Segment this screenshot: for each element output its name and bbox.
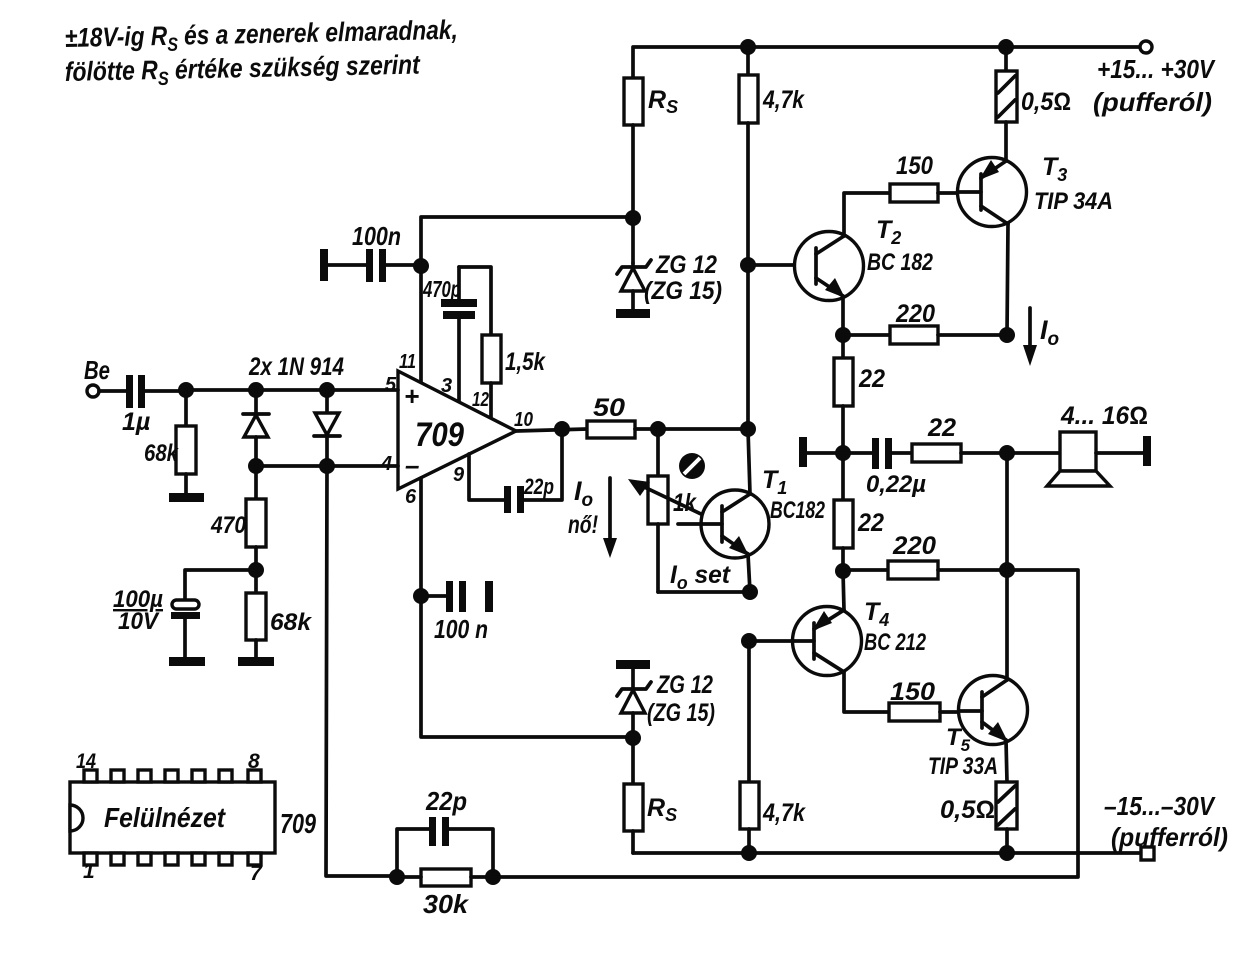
note text line 1 <box>64 15 458 58</box>
capacitor C2 100n (upper) <box>320 249 421 282</box>
resistor 1,5k <box>482 335 501 383</box>
speaker 4...16 ohm <box>1047 432 1143 486</box>
DIP pin 7 <box>248 853 261 865</box>
svg-text:(ZG 15): (ZG 15) <box>644 277 722 305</box>
node: rail / 4.7k column <box>740 39 756 55</box>
svg-text:(pufferól): (pufferól) <box>1093 87 1212 117</box>
wire T5 collector up <box>1005 570 1009 680</box>
svg-text:220: 220 <box>892 532 936 560</box>
resistor 150 (lower) <box>889 703 959 721</box>
terminal: input Be <box>87 385 99 397</box>
wire Rs bottom to zener node <box>631 125 635 263</box>
wire pin 5 <box>327 388 398 392</box>
svg-text:11: 11 <box>399 351 416 373</box>
svg-text:0,5Ω: 0,5Ω <box>1021 88 1071 116</box>
node: 100n lower / pin6 wire <box>413 588 429 604</box>
negative supply rail wire <box>633 851 1141 855</box>
node: output / speaker <box>999 445 1015 461</box>
node: rail / 0.5ohm bottom <box>999 845 1015 861</box>
svg-text:7: 7 <box>250 862 263 885</box>
terminal: +supply <box>1140 41 1152 53</box>
wire T2 collector to 150 <box>844 193 890 236</box>
svg-text:–15...–30V: –15...–30V <box>1104 791 1216 821</box>
svg-text:100n: 100n <box>352 221 401 251</box>
svg-text:6: 6 <box>405 486 417 508</box>
svg-text:BC 212: BC 212 <box>864 629 926 656</box>
svg-text:–: – <box>405 450 419 480</box>
resistor 4,7k (top) <box>739 47 758 429</box>
DIP pin 10 <box>192 770 205 782</box>
ground bar below zener D3 <box>616 309 650 318</box>
screw adjust symbol <box>679 453 705 479</box>
svg-text:10V: 10V <box>118 608 160 635</box>
resistor 30k <box>397 869 493 886</box>
potentiometer 1k <box>628 429 722 592</box>
node: diode D1 top <box>248 382 264 398</box>
svg-text:22: 22 <box>927 414 956 442</box>
capacitor C3 470p <box>441 267 477 402</box>
arrow Io (down) <box>1023 308 1037 366</box>
wire T4 base <box>749 639 793 643</box>
transistor T1 BC182 <box>678 490 769 558</box>
svg-text:68k: 68k <box>270 609 313 636</box>
ground bar below 100u <box>169 657 205 666</box>
node: 220 lower / output column / feedback <box>999 562 1015 578</box>
svg-text:4,7k: 4,7k <box>762 799 806 827</box>
resistor 0,5 ohm (top, hatched) <box>996 47 1017 161</box>
resistor Rs (bottom) <box>624 738 643 853</box>
node: output / 22p <box>554 421 570 437</box>
wire pin 4 <box>256 464 398 468</box>
capacitor C1 1u input <box>99 375 186 408</box>
svg-text:14: 14 <box>76 750 96 773</box>
DIP pin 14 <box>84 770 97 782</box>
svg-text:1k: 1k <box>673 489 697 517</box>
node: T1 emitter / Io set <box>742 584 758 600</box>
wire T4 emitter up <box>843 571 844 610</box>
wire Io-set loop bottom <box>658 590 750 594</box>
capacitor 22p (op-amp comp, pin 9) <box>469 429 562 513</box>
wire 470p top to 1.5k top <box>459 267 491 335</box>
svg-text:1µ: 1µ <box>122 408 150 436</box>
svg-text:709: 709 <box>280 808 316 839</box>
svg-text:+15... +30V: +15... +30V <box>1097 54 1216 84</box>
svg-text:Felülnézet: Felülnézet <box>104 802 226 833</box>
svg-text:ZG 12: ZG 12 <box>655 251 717 279</box>
positive supply rail wire <box>633 47 1146 78</box>
op-amp U1 709 triangle <box>398 371 516 489</box>
svg-text:0,5Ω: 0,5Ω <box>940 796 995 824</box>
transistor T4 BC212 <box>793 607 862 676</box>
wire node to 100u <box>185 570 256 600</box>
wire T1 emitter down <box>748 554 750 592</box>
resistor 220 (lower) <box>843 561 1007 579</box>
node: rail / 4.7k bottom <box>741 845 757 861</box>
svg-text:(pufferról): (pufferról) <box>1111 822 1228 852</box>
svg-text:30k: 30k <box>423 889 470 919</box>
node: T1 collector column <box>740 421 756 437</box>
terminal: -supply (square) <box>1141 847 1154 860</box>
node: zener D4 / pin6 wire <box>625 730 641 746</box>
wire T2 base <box>748 263 816 267</box>
transistor T3 TIP34A <box>958 158 1027 227</box>
svg-text:22p: 22p <box>425 786 467 816</box>
resistor 22 (emitter T2/T3) <box>834 335 853 453</box>
node: output junction left <box>835 445 851 461</box>
svg-text:2x 1N 914: 2x 1N 914 <box>248 353 344 381</box>
wire op-amp output <box>516 429 587 431</box>
svg-text:1: 1 <box>83 860 95 883</box>
capacitor 22p (feedback, lower) <box>397 817 493 877</box>
svg-text:0,22µ: 0,22µ <box>866 471 926 498</box>
svg-text:4: 4 <box>380 453 392 475</box>
svg-text:+: + <box>404 381 419 411</box>
svg-text:10: 10 <box>514 409 533 431</box>
terminal bar left of 0.22u <box>799 437 807 467</box>
node: rail / 0.5ohm column <box>998 39 1014 55</box>
wire T1 collector up <box>748 429 750 494</box>
svg-text:TIP 34A: TIP 34A <box>1034 188 1113 215</box>
wire T2 emitter down <box>841 296 845 335</box>
svg-text:3: 3 <box>441 375 452 397</box>
resistor 220 (upper) <box>843 326 1007 344</box>
wire inverting input down to 30k <box>326 466 397 876</box>
svg-text:4... 16Ω: 4... 16Ω <box>1060 402 1148 430</box>
ground bar below 68k input <box>169 493 204 502</box>
node: 470 / 68k / 100u <box>248 562 264 578</box>
node: 30k right <box>485 869 501 885</box>
DIP pin 11 <box>165 770 178 782</box>
svg-text:22: 22 <box>857 509 884 537</box>
capacitor C4 100u electrolytic <box>171 600 200 658</box>
resistor 68k (second) <box>246 593 266 658</box>
capacitor 100n (lower) <box>421 581 493 612</box>
DIP pin 3 <box>138 853 151 865</box>
resistor 150 (upper) <box>890 184 959 202</box>
ground bar above zener D4 <box>616 660 650 669</box>
DIP pin 9 <box>219 770 232 782</box>
svg-text:150: 150 <box>890 678 935 706</box>
resistor 22 (emitter T4/T5) <box>834 453 853 571</box>
wire output column mid <box>1005 453 1009 570</box>
zener D4 ZG12 bottom <box>617 669 651 737</box>
svg-text:nő!: nő! <box>568 511 598 539</box>
DIP pin 8 <box>248 770 261 782</box>
node: T4 emitter / 220 lower <box>835 563 851 579</box>
svg-text:8: 8 <box>248 750 260 773</box>
DIP pin 4 <box>165 853 178 865</box>
svg-text:709: 709 <box>415 416 464 454</box>
IC package 709 DIP-14 top view <box>70 782 275 853</box>
DIP pin 5 <box>192 853 205 865</box>
ground bar below 68k second <box>238 657 274 666</box>
DIP pin 2 <box>111 853 124 865</box>
node: 100n / V+ line <box>413 258 429 274</box>
node: Rs / pin-11 wire <box>625 210 641 226</box>
node: diode D2 top <box>319 382 335 398</box>
node: input / 68k <box>178 382 194 398</box>
node: T2 emitter / 220 / 22 <box>835 327 851 343</box>
resistor 4,7k (bottom) <box>740 641 759 853</box>
arrow Io no (down) <box>603 478 617 558</box>
svg-text:470: 470 <box>210 512 246 539</box>
node: D2 bottom / pin4 <box>319 458 335 474</box>
svg-text:9: 9 <box>453 464 465 486</box>
svg-text:4,7k: 4,7k <box>762 86 805 114</box>
svg-text:Be: Be <box>84 355 110 385</box>
svg-text:TIP 33A: TIP 33A <box>928 753 998 780</box>
svg-text:100 n: 100 n <box>434 614 488 644</box>
wire T4 collector to 150 lower <box>844 672 889 712</box>
resistor 22 (zobel) <box>912 444 1060 462</box>
svg-text:1,5k: 1,5k <box>505 348 546 376</box>
resistor 68k (input) <box>176 390 196 494</box>
wire op-amp V+ (pin 11) to Rs node <box>421 217 633 383</box>
wire terminal to node <box>807 451 843 455</box>
svg-text:150: 150 <box>896 152 933 180</box>
wire input node to pin5 node <box>186 388 327 392</box>
resistor Rs (top) <box>624 78 643 125</box>
node: 50 right / 1k pot top <box>650 421 666 437</box>
diode D2 1N914 (cathode down) <box>314 390 340 466</box>
resistor 470 <box>246 466 266 593</box>
node: 30k left <box>389 869 405 885</box>
resistor 0,5 ohm (bottom, hatched) <box>996 740 1017 853</box>
svg-text:470p: 470p <box>422 276 461 302</box>
svg-text:ZG 12: ZG 12 <box>656 671 713 699</box>
transistor T2 BC182 <box>795 232 864 301</box>
svg-text:68k: 68k <box>144 440 179 467</box>
wire pin 6 down to 100n lower and bottom zener <box>421 478 633 737</box>
DIP pin 12 <box>138 770 151 782</box>
node: T2 base <box>740 257 756 273</box>
wire T3 collector down <box>1007 224 1008 335</box>
wire feedback line to output column <box>493 570 1078 877</box>
diode D1 1N914 (cathode up) <box>243 390 269 466</box>
capacitor 0,22u <box>843 438 912 469</box>
node: T4 base <box>741 633 757 649</box>
resistor 50 <box>587 421 748 438</box>
DIP pin 6 <box>219 853 232 865</box>
node: 220 / output column <box>999 327 1015 343</box>
svg-text:(ZG 15): (ZG 15) <box>647 699 715 727</box>
note text line 2 <box>64 50 421 92</box>
DIP pin 1 <box>84 853 97 865</box>
svg-text:50: 50 <box>593 394 625 422</box>
svg-text:22: 22 <box>858 365 885 393</box>
svg-text:220: 220 <box>895 300 935 328</box>
wire 1.5k to pin 12 <box>489 383 493 418</box>
zener D3 ZG12 top <box>617 260 651 310</box>
svg-text:22p: 22p <box>523 474 554 499</box>
transistor T5 TIP33A <box>959 676 1028 745</box>
DIP pin 13 <box>111 770 124 782</box>
svg-text:5: 5 <box>385 374 397 396</box>
terminal bar right of speaker <box>1143 436 1151 466</box>
svg-text:BC 182: BC 182 <box>867 249 934 276</box>
node: D1 bottom / pin4 <box>248 458 264 474</box>
svg-text:12: 12 <box>472 389 489 411</box>
svg-text:BC182: BC182 <box>770 497 825 524</box>
